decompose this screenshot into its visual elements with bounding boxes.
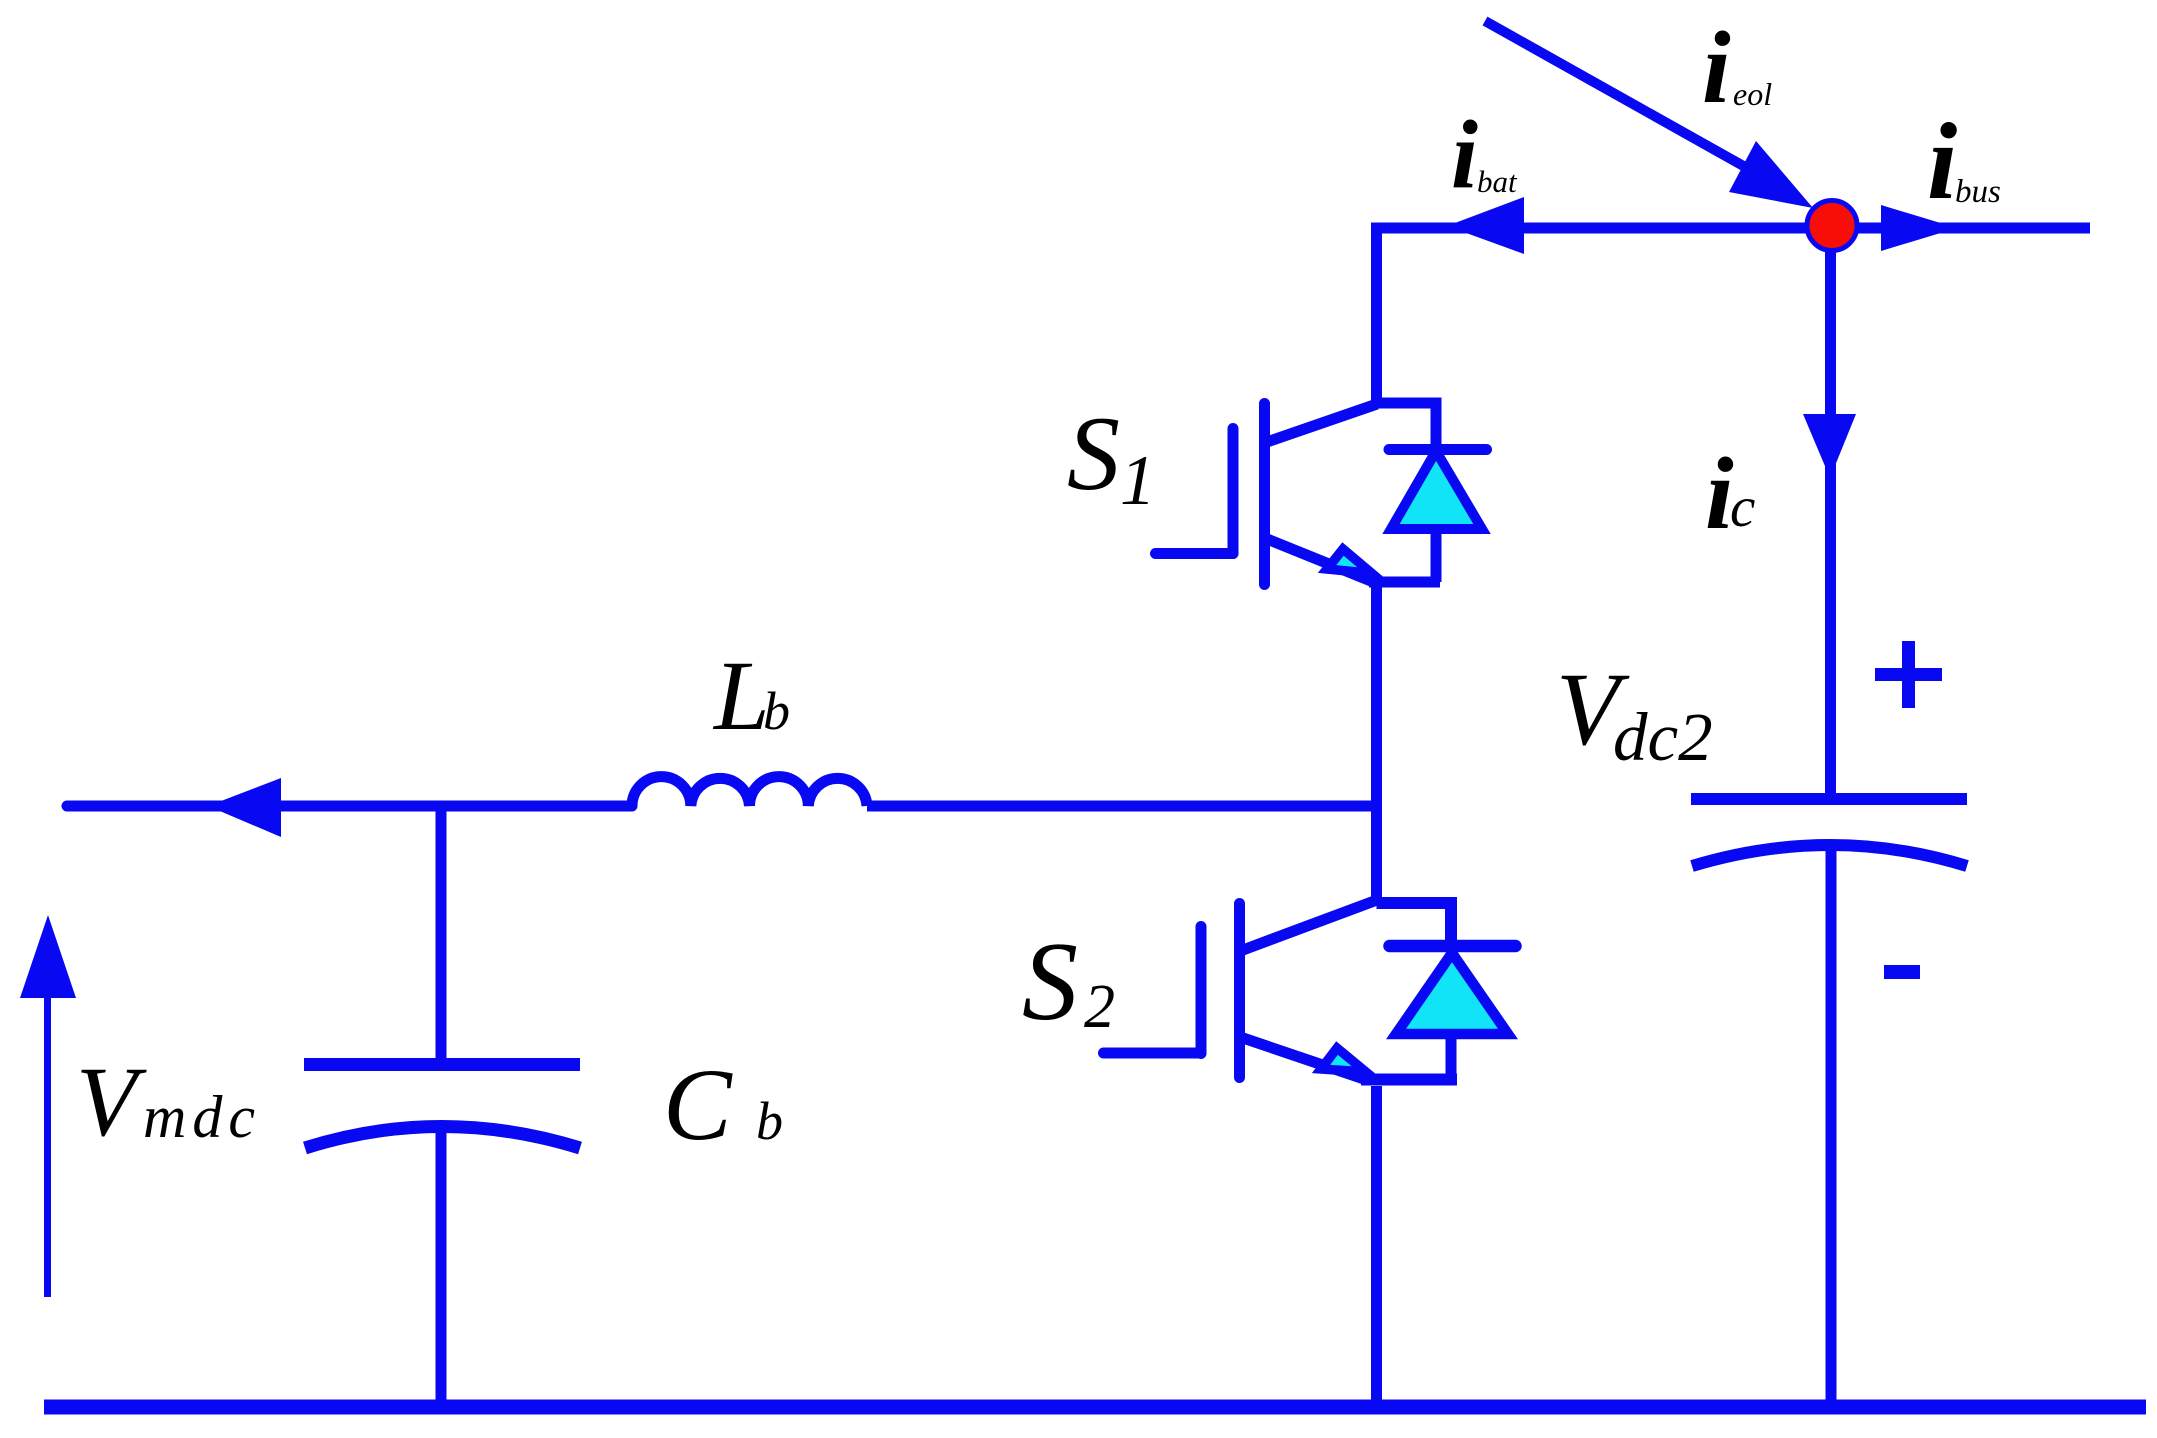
transistor S1 emitter arrowhead bbox=[1327, 549, 1372, 574]
arrow Vmdc (up-pointing) bbox=[44, 990, 51, 1297]
capacitor Cb lead top bbox=[436, 806, 447, 1058]
svg-text:L: L bbox=[712, 640, 770, 751]
diode D2 anode lead bbox=[1446, 1032, 1457, 1079]
capacitor Vdc2 top plate bbox=[1691, 793, 1967, 805]
svg-text:mdc: mdc bbox=[143, 1084, 261, 1150]
transistor S1 collector elbow bbox=[1377, 403, 1437, 449]
svg-text:V: V bbox=[76, 1046, 147, 1157]
svg-text:S: S bbox=[1067, 395, 1120, 512]
capacitor Vdc2 curved plate bbox=[1692, 845, 1967, 866]
capacitor Vdc2 lead bottom bbox=[1826, 845, 1837, 1407]
arrow i_bus (right-pointing) bbox=[1881, 205, 1957, 251]
transistor S1 gate lead bbox=[1156, 548, 1234, 559]
svg-text:bus: bus bbox=[1955, 174, 2001, 210]
transistor S2 emitter diagonal bbox=[1243, 1038, 1367, 1080]
diode D1 cathode bar bbox=[1389, 444, 1487, 455]
transistor S2 collector diagonal bbox=[1243, 900, 1377, 950]
transistor S1 collector diagonal bbox=[1267, 404, 1377, 442]
arrow i_eol head bbox=[1729, 141, 1813, 208]
diode D1 anode lead bbox=[1431, 528, 1442, 582]
transistor S1 gate bar bbox=[1228, 429, 1239, 554]
svg-text:i: i bbox=[1451, 101, 1478, 208]
arrow i_c (down-pointing) bbox=[1803, 414, 1856, 478]
wire middle horizontal right segment bbox=[867, 801, 1382, 812]
wire bottom rail bbox=[44, 1400, 2146, 1415]
inductor Lb bbox=[632, 777, 867, 806]
capacitor Cb curved plate bbox=[305, 1127, 580, 1149]
capacitor Cb lead bottom bbox=[436, 1127, 447, 1407]
capacitor Cb top plate bbox=[304, 1058, 580, 1071]
transistor S2 gate lead bbox=[1104, 1048, 1202, 1059]
arrow i_bat (left-pointing) bbox=[1447, 197, 1524, 254]
wire top horizontal with corner down to S1 bbox=[1377, 228, 2091, 408]
svg-text:b: b bbox=[756, 1091, 783, 1151]
svg-text:c: c bbox=[1730, 476, 1755, 539]
svg-text:2: 2 bbox=[1084, 973, 1115, 1041]
svg-text:S: S bbox=[1022, 920, 1078, 1044]
transistor S2 emitter arrowhead bbox=[1321, 1048, 1366, 1072]
label minus sign bbox=[1884, 965, 1920, 979]
svg-text:C: C bbox=[663, 1048, 733, 1162]
transistor S2 main bar bbox=[1234, 904, 1245, 1078]
wire middle horizontal left segment bbox=[67, 801, 632, 812]
svg-text:dc2: dc2 bbox=[1613, 699, 1713, 775]
arrow battery-side current (left-pointing) bbox=[208, 778, 281, 837]
transistor S2 gate bar bbox=[1196, 927, 1207, 1054]
diode D2 cathode bar bbox=[1390, 940, 1516, 953]
svg-text:i: i bbox=[1927, 101, 1957, 222]
svg-text:i: i bbox=[1702, 11, 1731, 125]
transistor S1 emitter diagonal bbox=[1267, 539, 1371, 581]
svg-text:bat: bat bbox=[1477, 164, 1518, 199]
svg-text:1: 1 bbox=[1120, 442, 1156, 520]
svg-text:eol: eol bbox=[1733, 76, 1772, 112]
wire node down to Vdc2 bbox=[1825, 250, 1836, 793]
wire S2 emitter down to rail bbox=[1371, 1086, 1382, 1407]
wire eol diagonal bbox=[1485, 21, 1747, 168]
transistor S1 emitter horizontal bbox=[1369, 577, 1440, 588]
transistor S2 emitter horizontal bbox=[1361, 1074, 1457, 1086]
transistor S2 collector elbow bbox=[1377, 903, 1452, 945]
transistor S1 main bar bbox=[1259, 404, 1270, 585]
diode D2 triangle bbox=[1396, 953, 1508, 1034]
svg-text:b: b bbox=[763, 681, 790, 741]
label plus sign bbox=[1875, 641, 1942, 708]
wire S1 emitter down to S2 collector bbox=[1371, 582, 1382, 903]
node junction (red) bbox=[1807, 201, 1857, 251]
diode D1 triangle bbox=[1391, 451, 1482, 529]
